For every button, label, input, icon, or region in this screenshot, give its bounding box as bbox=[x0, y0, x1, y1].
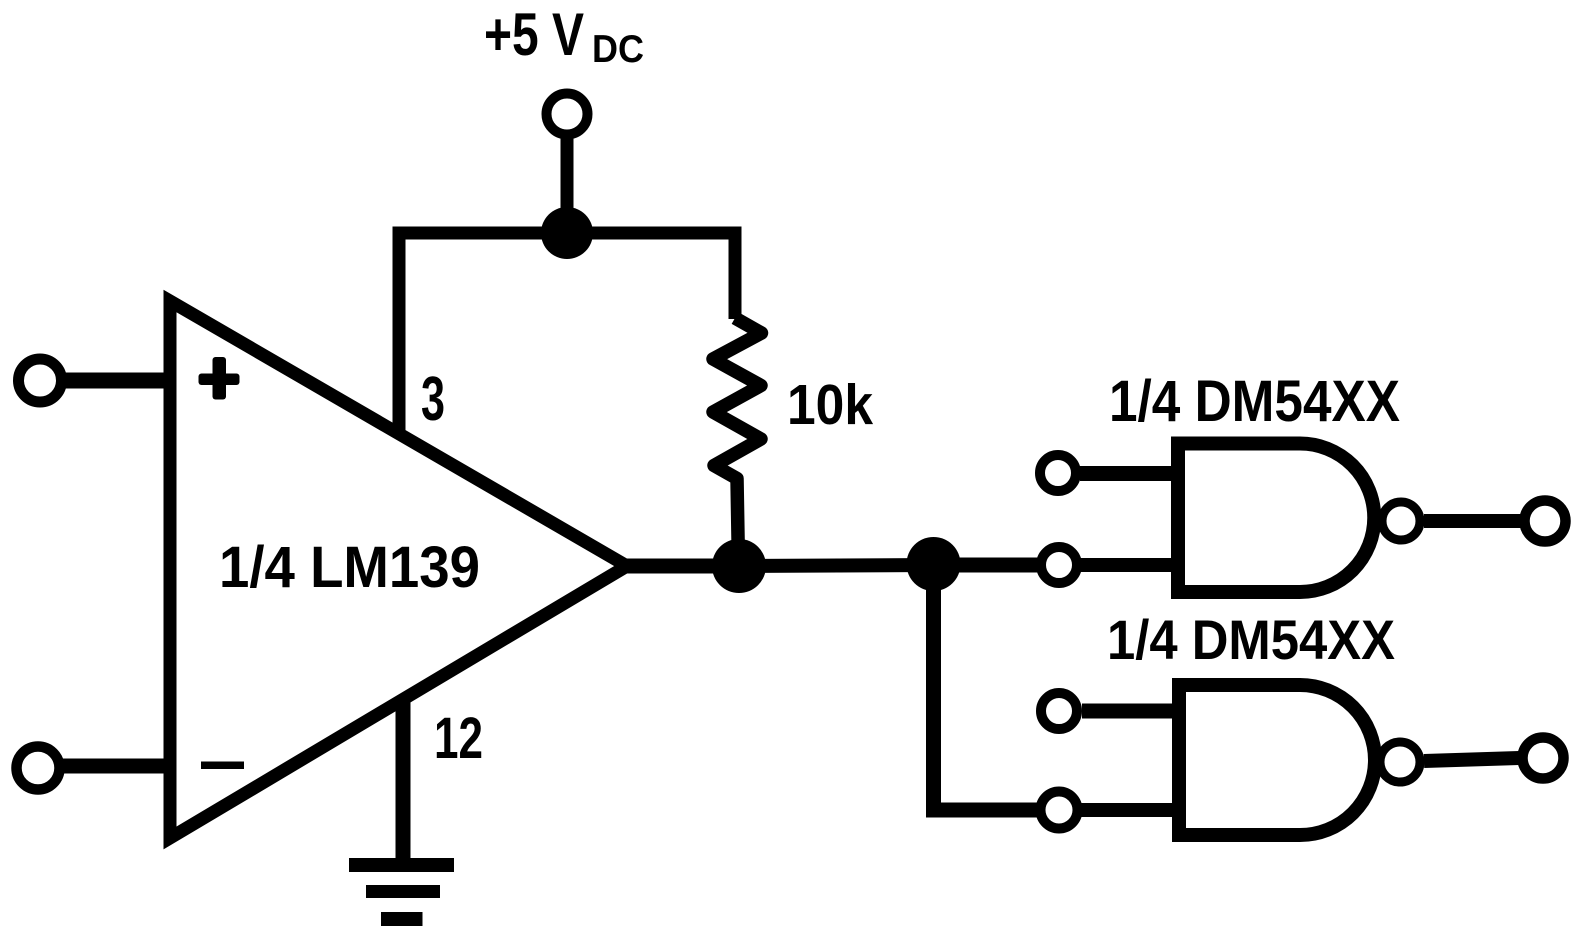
wire inverting input lead bbox=[63, 759, 176, 774]
ground bar 1 bbox=[349, 858, 454, 872]
wire gate2 upper input lead bbox=[1082, 704, 1180, 719]
wire node B drop bbox=[926, 564, 941, 810]
junction node B bbox=[907, 537, 961, 591]
wire op-amp output bbox=[626, 559, 739, 574]
svg-text:+5 V: +5 V bbox=[484, 1, 584, 68]
svg-text:3: 3 bbox=[421, 365, 445, 434]
wire noninverting input lead bbox=[64, 373, 176, 389]
wire gate2 lower input lead bbox=[1081, 803, 1180, 817]
+5 VDC label bbox=[484, 1, 644, 71]
wire resistor top lead bbox=[729, 233, 742, 319]
junction supply node bbox=[541, 207, 593, 259]
junction output node A bbox=[712, 539, 766, 593]
op-amp U1 1/4 LM139 bbox=[170, 301, 627, 838]
plus input mark bbox=[199, 357, 240, 400]
wire bottom run to gate2 input circle bbox=[926, 803, 1038, 818]
terminal inverting input bbox=[17, 747, 60, 790]
svg-text:1/4 DM54XX: 1/4 DM54XX bbox=[1109, 369, 1400, 434]
gate2 lower input circle bbox=[1041, 792, 1078, 829]
wire gate1 lower input lead bbox=[1081, 558, 1179, 572]
wire pin 3 stub bbox=[393, 233, 406, 437]
svg-text:10k: 10k bbox=[787, 373, 873, 437]
resistor R1 10k bbox=[713, 318, 762, 566]
gate2 output bubble bbox=[1380, 742, 1420, 782]
NAND gate U2 body bbox=[1178, 444, 1374, 593]
terminal noninverting input bbox=[19, 359, 62, 402]
NAND gate U3 body bbox=[1179, 685, 1375, 835]
gate1 output bubble bbox=[1382, 502, 1420, 540]
svg-text:1/4 DM54XX: 1/4 DM54XX bbox=[1107, 608, 1395, 671]
svg-text:1/4 LM139: 1/4 LM139 bbox=[219, 535, 480, 600]
wire gate2 output lead bbox=[1424, 758, 1519, 761]
wire gate1 output lead bbox=[1424, 514, 1521, 528]
gate1 lower input circle bbox=[1041, 547, 1077, 583]
svg-text:12: 12 bbox=[434, 706, 483, 771]
terminal gate1 output bbox=[1525, 501, 1566, 542]
wire top rail bbox=[393, 227, 742, 240]
terminal gate1 upper input bbox=[1040, 455, 1076, 491]
terminal +5V supply bbox=[547, 94, 588, 135]
terminal gate2 output bbox=[1523, 738, 1564, 779]
wire supply lead bbox=[561, 137, 574, 233]
wire gate1 upper input lead bbox=[1080, 466, 1179, 481]
ground bar 2 bbox=[366, 885, 440, 898]
svg-text:DC: DC bbox=[592, 28, 644, 71]
wire node B to gate1 input circle bbox=[933, 558, 1038, 573]
wire node A to node B bbox=[739, 565, 933, 566]
wire pin 12 stub bbox=[396, 700, 411, 860]
minus input mark bbox=[201, 762, 244, 770]
terminal gate2 upper input bbox=[1041, 693, 1077, 729]
ground bar 3 bbox=[381, 912, 423, 926]
